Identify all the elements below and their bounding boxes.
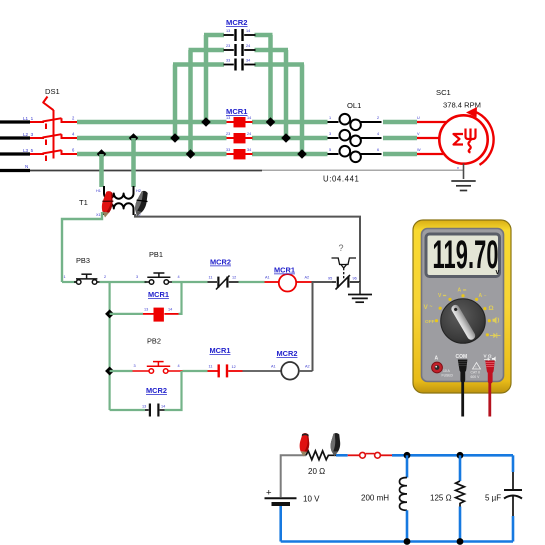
svg-text:N: N xyxy=(25,164,28,169)
svg-text:6: 6 xyxy=(377,148,379,152)
feeder line L3 black segment xyxy=(0,152,30,155)
wire L2 green xyxy=(77,136,227,141)
gang bar xyxy=(53,110,55,159)
contactor MCR2 power contacts xyxy=(224,29,256,71)
svg-text:119.70: 119.70 xyxy=(433,232,499,277)
pushbutton PB2 (NO, actuated red) xyxy=(133,362,183,374)
svg-text:10 V: 10 V xyxy=(303,495,320,504)
rung 1 wire contact to coil (green) xyxy=(239,281,265,283)
svg-text:14: 14 xyxy=(247,116,251,120)
junction node (inductor top) xyxy=(404,452,411,459)
svg-text:34: 34 xyxy=(247,148,251,152)
probe clip red on T1 secondary xyxy=(100,190,115,218)
svg-text:MCR2: MCR2 xyxy=(146,386,167,395)
svg-text:1: 1 xyxy=(329,116,331,120)
dial knob pointer xyxy=(450,303,477,341)
junction L3 / MCR2 return xyxy=(297,149,307,159)
battery V1 10 V xyxy=(265,488,297,542)
contactor MCR1 power contacts (closed, red) xyxy=(227,117,253,159)
svg-text:V Ω: V Ω xyxy=(484,354,492,359)
wire from T1 secondary left to left rail xyxy=(62,212,102,282)
pushbutton PB3 (NC) xyxy=(74,274,100,284)
svg-text:13: 13 xyxy=(144,308,148,312)
svg-text:34: 34 xyxy=(246,59,250,63)
motor glyph psi-squiggle xyxy=(466,129,476,153)
rung 1 wire left (green) xyxy=(62,281,77,283)
holding branch rung1 wire (green) xyxy=(110,313,143,315)
resistor R 125 ohm xyxy=(459,455,462,481)
probe clip black on T1 secondary xyxy=(132,189,151,218)
svg-text:10 A: 10 A xyxy=(443,369,451,373)
feeder line L1 black segment xyxy=(0,120,30,123)
svg-text:+: + xyxy=(266,488,272,499)
right rail to ground xyxy=(359,282,361,294)
svg-text:5: 5 xyxy=(329,148,331,152)
svg-text:96: 96 xyxy=(353,277,357,281)
feeder line L2 black segment xyxy=(0,136,30,139)
capacitor C 5 uF xyxy=(512,455,515,472)
rung 2 wire left (green) xyxy=(110,370,133,372)
junction node (resistor top) xyxy=(457,452,464,459)
svg-text:200 mH: 200 mH xyxy=(361,494,389,503)
multimeter face panel xyxy=(422,229,504,382)
svg-text:T1: T1 xyxy=(79,198,88,207)
svg-text:L3 5: L3 5 xyxy=(23,148,34,153)
svg-text:L1 1: L1 1 xyxy=(23,116,34,121)
junction dot rung2 xyxy=(105,366,114,375)
svg-text:MCR2: MCR2 xyxy=(277,349,298,358)
svg-text:MCR1: MCR1 xyxy=(148,290,169,299)
svg-text:v: v xyxy=(457,166,459,170)
blade pole 2 xyxy=(45,140,47,146)
junction L2 / MCR2 return xyxy=(281,133,291,143)
svg-text:33: 33 xyxy=(226,59,230,63)
svg-text:Ω: Ω xyxy=(489,305,494,312)
contact MCR2 NO (holding, open) xyxy=(145,404,165,417)
holding branch rung2 up wire (green) xyxy=(165,371,182,410)
contact MCR2 NC (rung 1) xyxy=(208,276,239,290)
svg-text:MCR2: MCR2 xyxy=(210,258,231,267)
junction L1 / MCR2 feed xyxy=(201,117,211,127)
contact MCR1 (rung 2, red) xyxy=(208,364,243,377)
svg-text:5 µF: 5 µF xyxy=(485,494,501,503)
blade pole 1 xyxy=(45,124,47,130)
svg-text:H1: H1 xyxy=(96,189,101,193)
wire battery top (gray) xyxy=(281,455,306,497)
svg-text:14: 14 xyxy=(168,308,172,312)
wire from T1 secondary right to right rail (neutral) xyxy=(135,214,360,283)
rung 2 wire PB2 to MCR1 contact (green) xyxy=(183,370,208,372)
svg-text:3: 3 xyxy=(136,275,138,279)
coil MCR2 (black) xyxy=(281,362,299,380)
motor lead wires (red) xyxy=(417,122,448,154)
svg-text:125 Ω: 125 Ω xyxy=(430,494,452,503)
svg-text:SC1: SC1 xyxy=(436,88,451,97)
crossover vertical wires right of MCR2 xyxy=(268,35,273,122)
probe clip black on R right xyxy=(330,433,341,457)
black probe plug in COM xyxy=(458,360,468,383)
svg-text:4: 4 xyxy=(178,364,180,368)
svg-text:1: 1 xyxy=(64,275,66,279)
svg-text:2: 2 xyxy=(377,116,379,120)
svg-text:378.4 RPM: 378.4 RPM xyxy=(443,101,481,110)
junction node (inductor bottom) xyxy=(404,538,411,545)
svg-text:A2: A2 xyxy=(305,276,310,280)
multimeter body xyxy=(413,220,511,417)
svg-text:3: 3 xyxy=(134,364,136,368)
T1 pin labels xyxy=(96,189,141,217)
svg-text:95: 95 xyxy=(328,277,332,281)
MCR2 pin labels xyxy=(226,29,250,63)
ground (motor) xyxy=(451,181,475,191)
diode icon xyxy=(490,333,501,338)
wire after clip (blue) xyxy=(336,454,348,457)
svg-text:600 V: 600 V xyxy=(471,375,481,379)
motor SC1 xyxy=(439,115,487,163)
neutral wire N xyxy=(30,170,262,172)
ground (control) xyxy=(348,295,372,303)
resistor R 20 ohm xyxy=(306,451,336,460)
svg-text:A1: A1 xyxy=(265,276,270,280)
jack A (red ring) xyxy=(432,362,443,373)
svg-text:A: A xyxy=(435,356,439,362)
svg-text:11: 11 xyxy=(209,365,213,369)
svg-text:13: 13 xyxy=(226,29,230,33)
dial scale labels xyxy=(424,288,501,339)
svg-text:33: 33 xyxy=(226,148,230,152)
svg-text:!: ! xyxy=(476,365,477,369)
svg-text:14: 14 xyxy=(246,29,250,33)
wire top (blue) xyxy=(392,454,513,457)
continuity icon xyxy=(493,317,497,324)
MCR2 row horizontal green wires xyxy=(204,33,224,38)
inductor L 200 mH xyxy=(406,455,409,477)
svg-text:U: U xyxy=(417,116,420,120)
MCR1 pin labels xyxy=(226,116,251,152)
svg-text:W: W xyxy=(417,148,421,152)
transformer T1 primary tap wires xyxy=(99,154,104,187)
svg-text:DS1: DS1 xyxy=(45,87,60,96)
rotary dial xyxy=(441,299,486,344)
wire L3 green xyxy=(77,152,227,157)
svg-text:A: A xyxy=(458,288,462,294)
rung 1 wire PB3 to PB1 (green) xyxy=(100,281,147,283)
junction L3 / T1 tap xyxy=(97,149,107,159)
svg-text:24: 24 xyxy=(247,132,251,136)
svg-text:20 Ω: 20 Ω xyxy=(308,467,325,476)
svg-text:FUSED: FUSED xyxy=(442,374,454,378)
svg-text:MCR1: MCR1 xyxy=(274,266,295,275)
svg-text:U:04.441: U:04.441 xyxy=(323,175,359,184)
svg-text:11: 11 xyxy=(209,276,213,280)
black test lead wire xyxy=(461,381,464,417)
limit switch contact (NC) for ? xyxy=(332,275,360,290)
svg-text:MCR1: MCR1 xyxy=(210,346,231,355)
wire bottom (blue) xyxy=(281,540,513,543)
svg-text:X1: X1 xyxy=(96,213,101,217)
junction L2 / MCR2 feed xyxy=(170,133,180,143)
svg-text:~: ~ xyxy=(430,304,433,310)
disconnect switch DS1 xyxy=(30,97,78,162)
CAT rating text xyxy=(473,363,481,370)
OL1 pin labels xyxy=(329,116,379,152)
red probe plug in VΩ xyxy=(485,361,495,384)
svg-text:4: 4 xyxy=(178,275,180,279)
svg-text:14: 14 xyxy=(161,405,165,409)
overload relay OL1 xyxy=(328,114,382,162)
svg-text:A1: A1 xyxy=(271,365,276,369)
svg-text:12: 12 xyxy=(232,365,236,369)
svg-text:v: v xyxy=(496,269,500,276)
svg-text:OL1: OL1 xyxy=(347,101,361,110)
svg-text:V: V xyxy=(424,304,429,311)
svg-text:23: 23 xyxy=(226,44,230,48)
svg-text:4: 4 xyxy=(377,132,379,136)
svg-text:OFF: OFF xyxy=(425,319,435,325)
svg-text:PB1: PB1 xyxy=(149,250,163,259)
svg-text:PB3: PB3 xyxy=(76,256,90,265)
junction node (resistor bottom) xyxy=(457,538,464,545)
svg-text:13: 13 xyxy=(226,116,230,120)
svg-text:L2 3: L2 3 xyxy=(23,132,34,137)
holding branch rung2 wire (green) xyxy=(110,409,145,411)
svg-text:?: ? xyxy=(339,243,344,253)
svg-text:PB2: PB2 xyxy=(147,337,161,346)
svg-text:COM: COM xyxy=(456,354,468,360)
junction dot rung1 branch xyxy=(105,309,114,318)
svg-text:23: 23 xyxy=(226,132,230,136)
switch SW (open) xyxy=(360,452,366,458)
svg-text:24: 24 xyxy=(246,44,250,48)
motor glyph sigma xyxy=(454,134,464,145)
blade pole 3 xyxy=(45,156,47,162)
pushbutton PB1 (NO) xyxy=(145,273,173,284)
svg-text:2: 2 xyxy=(104,275,106,279)
junction L1 / MCR2 return xyxy=(266,117,276,127)
red test lead wire xyxy=(488,382,491,417)
handle xyxy=(43,97,53,111)
svg-text:A: A xyxy=(479,293,483,299)
svg-text:MCR1: MCR1 xyxy=(226,107,248,116)
svg-text:3: 3 xyxy=(329,132,331,136)
wire switch section (red) xyxy=(348,454,360,456)
svg-text:H2: H2 xyxy=(136,189,141,193)
rung 1 wire PB1 to MCR2 contact (green) xyxy=(172,281,208,283)
transformer T1 xyxy=(104,186,134,215)
junction L3 / MCR2 feed xyxy=(186,149,196,159)
svg-text:12: 12 xyxy=(232,276,236,280)
dial marker dots xyxy=(435,294,491,336)
junction dots on phase lines xyxy=(97,117,307,159)
svg-text:13: 13 xyxy=(142,405,146,409)
wire L1 green xyxy=(77,120,227,125)
probe clip red on R left xyxy=(299,433,310,457)
svg-text:A2: A2 xyxy=(305,365,310,369)
neutral N black segment xyxy=(0,169,30,172)
rung 2 wire contact to coil (gray) xyxy=(243,370,282,372)
motor neutral lead xyxy=(463,164,465,180)
motor pin labels xyxy=(417,116,459,170)
holding branch rung1 up wire (green) xyxy=(179,282,182,314)
motor rotation arrow xyxy=(475,112,494,165)
junction L2 / T1 tap xyxy=(129,133,139,143)
crossover vertical wires left of MCR2 xyxy=(204,35,209,122)
multimeter LCD xyxy=(426,234,500,277)
coil MCR1 (red) xyxy=(265,281,279,283)
contact MCR1 NO closed (red, holding) xyxy=(143,308,179,322)
left ladder vertical branch (green) xyxy=(108,282,110,410)
vertical wire to rung 2 (gray) xyxy=(312,282,314,371)
rung 1 wire coil to limit contact (gray) xyxy=(312,281,333,283)
svg-text:MCR2: MCR2 xyxy=(226,18,248,27)
